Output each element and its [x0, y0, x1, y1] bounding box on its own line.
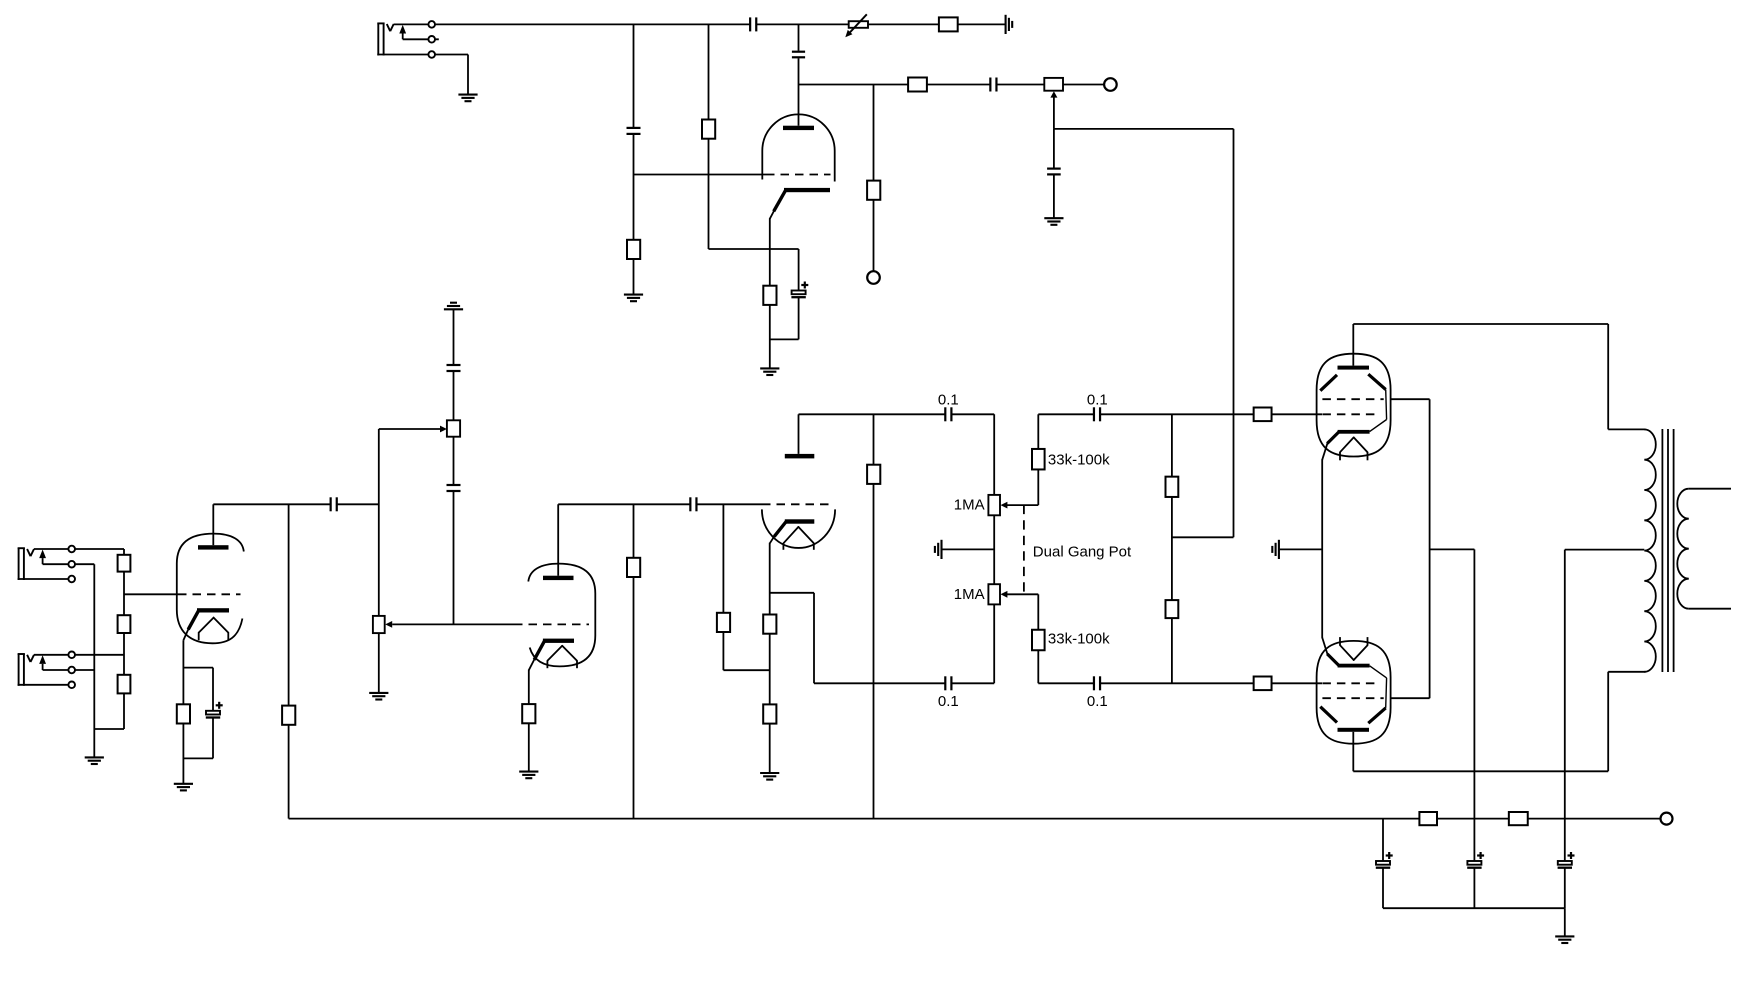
V6 screen grid (dashed) — [1322, 697, 1383, 699]
V5 screen grid (dashed) — [1322, 398, 1383, 400]
V4 heater — [783, 527, 813, 550]
wire secondary top — [1689, 488, 1731, 490]
resistor R14 — [627, 558, 640, 577]
wire J2 tip to R8 — [75, 549, 124, 555]
svg-text:0.1: 0.1 — [938, 391, 959, 408]
svg-text:0.1: 0.1 — [1087, 391, 1108, 408]
beam tetrode V6 envelope — [1317, 641, 1391, 744]
wire grid leak down — [722, 504, 724, 613]
wire V4 bottom row — [814, 682, 945, 684]
wire C15 to V6 grid — [1100, 682, 1254, 684]
ground (pot bus) — [935, 540, 942, 559]
wire R2 to ground — [958, 23, 1006, 25]
wire pot chain to bottom row — [951, 604, 994, 683]
V3 plate — [543, 576, 574, 580]
V4 plate lead — [798, 414, 800, 454]
label C15 — [1087, 693, 1108, 710]
wire C14 to V5 grid — [1100, 413, 1254, 415]
beam tetrode V5 envelope — [1317, 354, 1391, 457]
label P4 — [954, 497, 985, 514]
wire R15 to cathode node — [723, 632, 769, 670]
V2 plate — [198, 545, 229, 549]
wire C16 to return — [1382, 868, 1384, 908]
wire top rail from J1 tip — [435, 23, 750, 25]
wire R18 to bus — [873, 484, 875, 819]
capacitor C13 (0.1) — [945, 676, 951, 690]
ground (C6) — [1044, 218, 1063, 225]
input jack J2 — [18, 546, 95, 583]
ground (R3) — [624, 295, 643, 302]
wire R19 to top wire — [1037, 414, 1039, 449]
capacitor C8 — [331, 497, 337, 511]
wire R5 to ground — [770, 298, 799, 369]
wire J1 sleeve to ground — [435, 55, 468, 95]
wire C18 to return — [1564, 868, 1566, 908]
wire C8 to volume pot chain — [337, 503, 379, 505]
V5 beam plates — [1320, 374, 1385, 391]
potentiometer P2 (tone) — [447, 420, 460, 436]
potentiometer P1 (output level) — [1044, 78, 1063, 129]
wire R10 to ring bus — [123, 693, 125, 729]
wire tone wiper down to P3 — [378, 429, 380, 616]
wire top row right — [1038, 413, 1094, 415]
transformer T1 secondary — [1677, 489, 1688, 609]
capacitor C1 (top rail) — [750, 17, 756, 31]
resistor R12 — [282, 706, 295, 725]
capacitor C14 (0.1) — [1094, 407, 1100, 421]
wire V4 cathode jog — [770, 593, 814, 684]
wire secondary bottom — [1689, 608, 1731, 610]
wire link down to divider — [1172, 129, 1234, 537]
input jack J1 — [377, 21, 439, 58]
terminal (V1 test point) — [867, 271, 880, 284]
P2 wiper arrow — [379, 426, 447, 433]
wire divider bottom — [1171, 618, 1173, 683]
ground (V4 cathode) — [760, 773, 779, 780]
V2 cathode — [183, 608, 229, 640]
wire divider mid — [1171, 497, 1173, 600]
wire V2 plate row — [213, 503, 330, 505]
resistor R8 — [118, 555, 131, 572]
potentiometer P4 (1MA) — [988, 470, 1038, 516]
resistor R9 — [118, 615, 131, 633]
ground (V2 cathode) — [174, 784, 193, 791]
V6 beam tie — [1370, 666, 1387, 708]
resistor R24 (V6 grid) — [1254, 677, 1272, 691]
resistor R13 — [522, 704, 535, 723]
V6 screen lead — [1391, 697, 1430, 699]
wire R11 to ground — [182, 723, 184, 783]
wire dropper to bus — [288, 504, 290, 706]
V3 heater — [547, 646, 577, 668]
V6 beam plates — [1320, 707, 1385, 724]
wire R9 to R10 — [123, 633, 125, 675]
label dual gang — [1033, 543, 1132, 560]
terminal (B+ input) — [1661, 813, 1673, 825]
resistor R6 — [908, 78, 927, 92]
V4 grid (dashed) — [762, 503, 829, 505]
wire V5 plate to OT — [1353, 324, 1645, 429]
electrolytic capacitor C7 — [206, 702, 223, 718]
V1 grid (dashed) — [766, 174, 831, 176]
wire R6 to C5 — [927, 84, 991, 86]
resistor R15 — [717, 613, 730, 632]
wire bottom row right — [1038, 682, 1094, 684]
wire row down to R7 — [873, 85, 875, 182]
V5 heater — [1340, 437, 1368, 460]
transformer T1 primary — [1644, 429, 1656, 671]
wire V3 plate row — [558, 503, 690, 505]
wire C5 to pot P1 — [997, 84, 1045, 86]
potentiometer P5 (1MA) — [988, 584, 1038, 629]
triode V4 envelope — [762, 509, 835, 548]
wire screen to supply — [1430, 549, 1475, 861]
ground (tone top, inverted) — [444, 303, 463, 310]
resistor R11 — [177, 704, 190, 723]
resistor R19 (33k-100k) — [1032, 449, 1045, 470]
electrolytic capacitor C3 — [791, 282, 808, 298]
wire filter cap 1 — [1382, 819, 1384, 862]
input jack J3 — [18, 652, 95, 689]
wire top rail down to C2 — [633, 24, 635, 127]
resistor R4 — [702, 120, 715, 139]
wire gnd stub to cathodes — [1279, 548, 1322, 550]
ground (V1 cathode) — [760, 368, 779, 375]
electrolytic capacitor C16 — [1376, 852, 1393, 868]
label R19 — [1048, 451, 1110, 468]
ground (J1 sleeve) — [458, 95, 477, 102]
wire V1 cathode to R5 — [769, 218, 771, 286]
resistor R2 (top rail) — [939, 17, 958, 31]
svg-text:1MA: 1MA — [954, 497, 985, 514]
electrolytic capacitor C18 — [1558, 852, 1575, 868]
wire V6 plate to OT — [1353, 672, 1645, 772]
capacitor C6 — [1047, 169, 1061, 175]
V6 cathode — [1322, 638, 1369, 668]
wire P1 to terminal — [1063, 84, 1104, 86]
ground (output cathodes) — [1272, 540, 1279, 559]
wire C2 to R3 — [633, 135, 635, 240]
ground (top rail end) — [1006, 15, 1013, 34]
wire V3 cathode to R13 — [528, 670, 530, 705]
wire R17 to ground — [769, 724, 771, 774]
V2 plate lead — [212, 504, 214, 545]
svg-text:Dual Gang Pot: Dual Gang Pot — [1033, 543, 1132, 560]
svg-text:0.1: 0.1 — [938, 693, 959, 710]
ground (supply) — [1555, 936, 1574, 943]
resistor R22 — [1166, 600, 1179, 618]
capacitor C11 — [690, 497, 696, 511]
wire P3 to ground — [378, 633, 380, 693]
wire C10 to V3 grid row — [453, 491, 455, 624]
V3 grid (dashed) — [514, 623, 589, 625]
ground (V3 cathode) — [519, 772, 538, 779]
svg-text:0.1: 0.1 — [1087, 693, 1108, 710]
wire R8 to R9 — [123, 572, 125, 616]
wire R13 to ground — [528, 723, 530, 771]
potentiometer P3 (volume) — [373, 616, 385, 633]
triode V3 envelope — [528, 564, 595, 667]
V4 cathode — [770, 519, 815, 543]
triode V1 envelope — [762, 114, 834, 181]
V3 plate lead — [557, 504, 559, 575]
wire plate row junction down — [873, 414, 875, 465]
variable resistor VR1 — [845, 14, 868, 37]
wire P1 wiper down to C6 — [1053, 129, 1055, 168]
wire OT center tap — [1565, 550, 1645, 862]
wire V4 cathode node — [769, 543, 771, 615]
V5 plate — [1338, 366, 1370, 370]
wire screen bus — [1429, 399, 1431, 698]
wire R4 to C3 top — [709, 139, 799, 291]
resistor R17 — [763, 704, 776, 723]
svg-text:33k-100k: 33k-100k — [1048, 451, 1110, 468]
triode V2 envelope — [177, 534, 244, 644]
resistor R7 — [867, 181, 880, 200]
resistor R10 — [118, 675, 131, 694]
wire V2 cathode to C7 — [183, 668, 213, 711]
wire V1 grid — [634, 174, 767, 176]
resistor R3 — [627, 240, 640, 259]
wire C9 to P2 — [453, 371, 455, 420]
resistor R18 — [867, 465, 880, 484]
wire C7 to R11 bottom — [183, 718, 213, 759]
wire C11 to V4 grid — [697, 503, 763, 505]
resistor R20 (33k-100k) — [1032, 630, 1045, 651]
svg-text:1MA: 1MA — [954, 586, 985, 603]
capacitor C15 (0.1) — [1094, 676, 1100, 690]
label P5 — [954, 586, 985, 603]
dual gang link (dashed) — [1023, 505, 1025, 594]
wire R12 to bus — [288, 725, 290, 819]
wire R14 to bus — [633, 577, 635, 819]
capacitor C9 — [447, 365, 461, 371]
wire C6 to ground — [1053, 175, 1055, 218]
V6 heater — [1340, 637, 1368, 660]
label R20 — [1048, 631, 1110, 648]
label C12 — [938, 391, 959, 408]
svg-text:33k-100k: 33k-100k — [1048, 631, 1110, 648]
resistor R25 (supply) — [1419, 812, 1437, 825]
capacitor C12 (0.1) — [945, 407, 951, 421]
P3 wiper arrow — [385, 621, 514, 628]
wire P2 to C10 — [453, 437, 455, 485]
wire gnd stub to pots — [942, 548, 995, 550]
resistor R26 (supply) — [1509, 812, 1528, 825]
wire top rail to R2 — [756, 23, 939, 25]
wire divider top — [1171, 414, 1173, 476]
V6 control grid (dashed) — [1322, 682, 1380, 684]
capacitor C4 — [792, 52, 805, 58]
wire R23 to V5 — [1272, 413, 1322, 415]
wire R3 to ground — [633, 259, 635, 295]
resistor R21 — [1166, 477, 1179, 497]
V5 cathode — [1322, 430, 1369, 460]
label C13 — [938, 693, 959, 710]
V1 cathode — [770, 188, 830, 219]
wire top rail down to R4 — [708, 24, 710, 120]
wire ring bus to ground — [94, 564, 124, 757]
wire V2 grid — [124, 593, 178, 595]
wire R20 to bottom wire — [1037, 650, 1039, 683]
wire V4 plate row — [799, 413, 946, 415]
V6 plate lead — [1352, 732, 1354, 772]
V4 plate — [785, 454, 815, 459]
terminal (top output) — [1104, 78, 1117, 91]
resistor R5 — [763, 286, 776, 305]
wire dropper2 to bus — [633, 504, 635, 558]
resistor R16 — [763, 615, 776, 634]
V1 plate — [783, 126, 814, 130]
wire C12 to P4 — [951, 414, 994, 495]
V2 grid (dashed) — [178, 593, 241, 595]
wire P1 wiper row — [1054, 128, 1234, 130]
V5 screen lead — [1391, 398, 1430, 400]
label C14 — [1087, 391, 1108, 408]
wire R24 to V6 — [1272, 682, 1322, 684]
wire R7 to terminal — [873, 200, 875, 272]
ground (P3) — [369, 693, 388, 700]
V5 plate lead — [1352, 324, 1354, 366]
V6 plate — [1338, 728, 1370, 732]
transformer T1 core — [1662, 429, 1673, 672]
electrolytic capacitor C17 — [1467, 852, 1484, 868]
wire gang link top — [993, 515, 995, 584]
wire J3 tip to divider — [75, 654, 124, 656]
ground (ring bus) — [85, 757, 104, 764]
wire supply return — [1383, 908, 1565, 936]
V5 control grid (dashed) — [1322, 413, 1380, 415]
wire cathode bus — [1321, 459, 1323, 638]
wire V1 plate row — [799, 84, 909, 86]
wire C4 to V1 plate — [798, 58, 800, 125]
V2 heater — [199, 618, 229, 641]
wire gnd to C9 — [453, 309, 455, 365]
capacitor C2 — [627, 128, 641, 134]
wire V2 cathode to R11 — [182, 640, 184, 704]
capacitor C10 — [447, 485, 461, 491]
V3 cathode — [529, 639, 574, 671]
wire top rail down to C4 — [798, 24, 800, 50]
wire B+ bus — [289, 818, 1661, 820]
wire R16 junction — [769, 633, 771, 704]
resistor R23 (V5 grid) — [1254, 408, 1272, 422]
V5 beam tie — [1370, 390, 1387, 432]
capacitor C5 — [990, 78, 996, 92]
wire C17 to return — [1473, 868, 1475, 908]
